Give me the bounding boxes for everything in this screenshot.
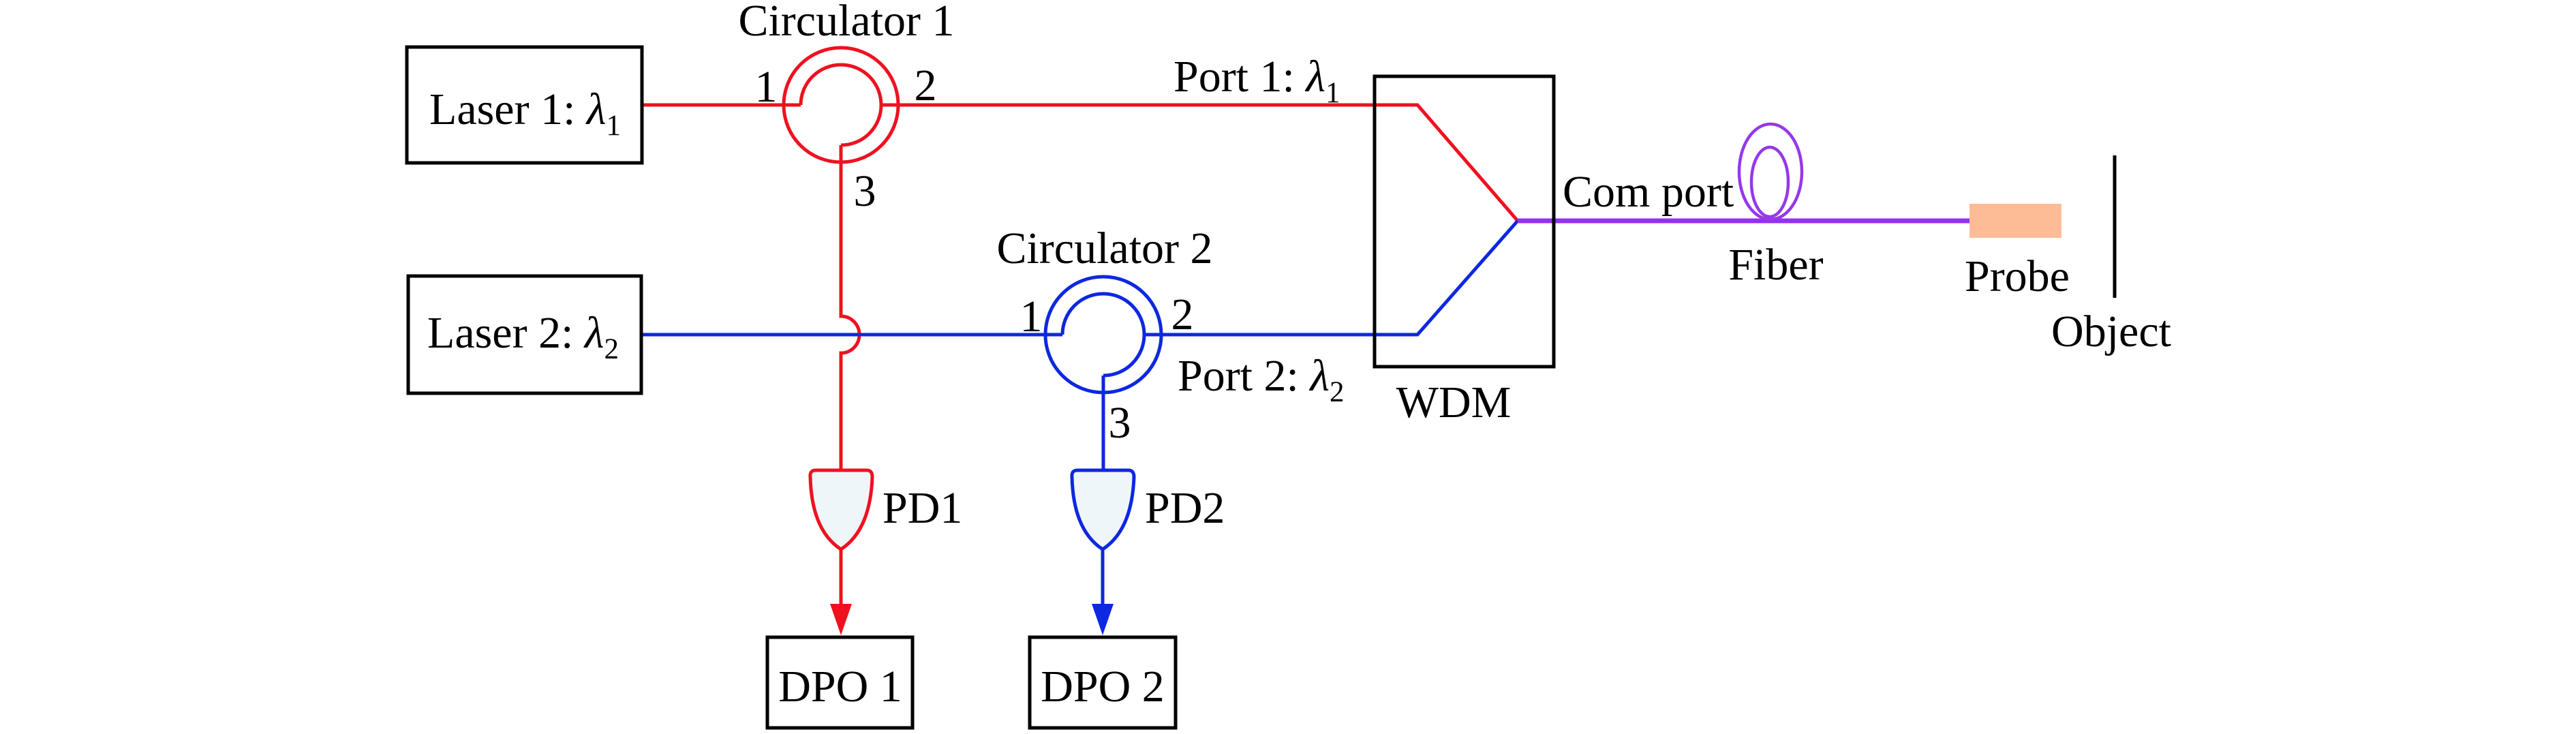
svg-text:2: 2 [915,61,937,110]
svg-text:Circulator 1: Circulator 1 [738,0,954,46]
wire circulator2 port2 to WDM with diagonal (blue) [1144,221,1518,335]
laser 2 box [408,276,641,393]
wire WDM com port to probe (purple fiber line) [1518,219,1969,224]
svg-text:1: 1 [755,62,778,112]
svg-text:DPO 2: DPO 2 [1041,662,1165,712]
wire PD1 to DPO1 (red) [840,549,843,609]
svg-text:Laser 1: λ1: Laser 1: λ1 [429,85,621,142]
svg-text:Object: Object [2051,307,2171,356]
WDM box [1375,76,1554,367]
circulator C2 inner arc (blue) [1062,294,1144,376]
fiber loop inner ellipse (purple) [1751,147,1788,217]
svg-text:3: 3 [854,166,876,216]
object line [2113,155,2117,298]
svg-text:3: 3 [1109,398,1131,448]
svg-text:1: 1 [1020,292,1043,341]
wire circulator2 port3 down (blue) [1102,376,1105,470]
arrowhead into DPO1 (red) [830,604,852,635]
DPO 1 box [767,637,913,728]
svg-text:Port 1: λ1: Port 1: λ1 [1174,52,1340,109]
svg-text:PD2: PD2 [1145,483,1225,533]
wire circulator1 port2 to WDM with diagonal (red) [881,105,1518,221]
svg-text:Probe: Probe [1965,251,2070,301]
wire laser2 to circulator2 port1 (blue) [641,333,1062,337]
wire circulator1 port3 down with hop over blue wire (red) [841,145,859,470]
svg-text:PD1: PD1 [883,483,962,533]
svg-text:Fiber: Fiber [1728,240,1823,290]
circulator C1 inner arc (red) [801,65,881,145]
svg-text:Port 2: λ2: Port 2: λ2 [1178,351,1344,408]
wire PD2 to DPO2 (blue) [1101,549,1105,609]
DPO 2 box [1030,637,1176,728]
svg-text:WDM: WDM [1396,378,1512,427]
laser 1 box [407,47,642,163]
fiber loop outer ellipse (purple) [1739,124,1802,219]
photodiode PD1 (red outline) [810,470,872,549]
circulator C2 outer circle (blue) [1045,277,1161,393]
photodiode PD2 (blue outline) [1072,470,1134,549]
probe rectangle [1969,204,2061,238]
arrowhead into DPO2 (blue) [1092,604,1114,635]
svg-text:Com port: Com port [1563,167,1734,217]
svg-text:Laser 2: λ2: Laser 2: λ2 [427,308,619,365]
svg-text:2: 2 [1171,290,1194,339]
wire laser1 to circulator1 port1 (red) [642,104,801,107]
circulator C1 outer circle (red) [784,48,898,162]
svg-text:DPO 1: DPO 1 [778,662,902,712]
svg-text:Circulator 2: Circulator 2 [996,224,1212,273]
